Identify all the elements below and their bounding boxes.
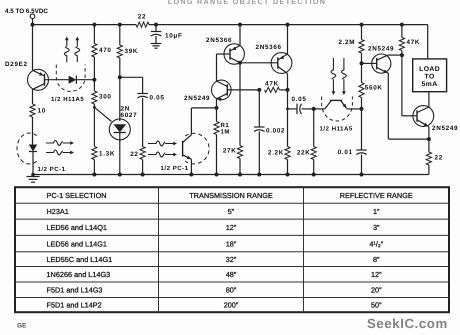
- svg-text:2N5249: 2N5249: [184, 95, 210, 102]
- table row F5D1 L14G3: [47, 285, 383, 294]
- transistor D29E2: [5, 61, 49, 90]
- wire node B to PUT anode: [119, 77, 121, 121]
- resistor 470: [92, 44, 112, 58]
- capacitor 0.05 (timing): [137, 94, 164, 147]
- svg-text:1”: 1”: [373, 207, 380, 216]
- table row 1N6266 L14G3: [47, 270, 383, 279]
- svg-text:GE: GE: [17, 323, 27, 330]
- svg-text:10μF: 10μF: [165, 33, 183, 40]
- transistor 2N5249 output: [413, 106, 458, 132]
- svg-text:80”: 80”: [226, 285, 237, 294]
- supply terminal: [30, 14, 35, 25]
- resistor 2.2K: [268, 109, 290, 160]
- resistor 1.3K: [92, 147, 115, 160]
- svg-text:560K: 560K: [365, 84, 383, 91]
- capacitor 0.01: [338, 109, 367, 175]
- svg-text:1N6266 and L14G3: 1N6266 and L14G3: [47, 270, 111, 279]
- svg-text:200”: 200”: [224, 301, 239, 310]
- wire 470 to node: [92, 57, 96, 82]
- resistor 22 (cathode): [130, 147, 145, 160]
- GE logo text: [17, 323, 27, 330]
- svg-text:0.002: 0.002: [266, 128, 285, 135]
- wire 27K to rail: [239, 159, 241, 175]
- wire node B to cap branch: [120, 77, 143, 93]
- svg-text:12”: 12”: [226, 223, 237, 232]
- wire 2N5249 emitter to node: [215, 99, 219, 110]
- svg-text:47K: 47K: [265, 81, 279, 88]
- svg-text:3”: 3”: [373, 223, 380, 232]
- svg-text:10: 10: [38, 108, 46, 115]
- wire bottom rail: [33, 173, 429, 177]
- svg-text:50”: 50”: [371, 301, 382, 310]
- wire rail corner to load: [427, 25, 429, 59]
- svg-text:39K: 39K: [125, 48, 139, 55]
- wire cap to H11A5: [314, 108, 325, 110]
- resistor 300: [92, 80, 112, 104]
- svg-text:22: 22: [138, 14, 146, 21]
- LED 1/2 H11A5 (input): [69, 76, 95, 84]
- svg-text:20”: 20”: [371, 285, 382, 294]
- svg-text:SeekIC.com: SeekIC.com: [367, 316, 448, 331]
- wire 2N5249 base: [227, 88, 261, 92]
- IR arrows up from H11A5 LED: [64, 37, 79, 63]
- resistor 39K: [117, 45, 138, 58]
- IR arrows into H11A5: [331, 58, 346, 95]
- wire 47K to collector line: [280, 88, 290, 92]
- wire collector to 47K node: [388, 53, 404, 57]
- svg-text:F5D1 and L14G3: F5D1 and L14G3: [47, 285, 103, 294]
- svg-text:2N5366: 2N5366: [206, 37, 232, 44]
- resistor 47K mid: [265, 81, 280, 93]
- svg-text:2.2K: 2.2K: [268, 150, 284, 157]
- svg-text:2.2M: 2.2M: [338, 39, 355, 46]
- resistor 22 output: [426, 152, 443, 165]
- wire load to collector: [428, 92, 430, 107]
- transistor 2N5249 first: [184, 80, 231, 102]
- LED 1/2 PC-1 (emitter): [29, 145, 37, 175]
- svg-text:1/2 PC-1: 1/2 PC-1: [38, 166, 66, 173]
- transistor 2N5366 second: [240, 44, 292, 74]
- svg-text:REFLECTIVE RANGE: REFLECTIVE RANGE: [340, 191, 413, 200]
- resistor 2.2M: [338, 39, 364, 53]
- svg-text:4¹/₂”: 4¹/₂”: [369, 239, 383, 248]
- svg-text:6027: 6027: [121, 112, 138, 119]
- table row F5D1 L14P2: [47, 301, 383, 310]
- wire 47K to base of output: [402, 51, 417, 116]
- phototransistor 1/2 PC-1: [183, 108, 192, 175]
- resistor 27K: [223, 146, 243, 159]
- capacitor 10uF: [151, 25, 183, 49]
- load box: [413, 59, 447, 92]
- wire 5366 collector down: [238, 61, 242, 146]
- wire gate node down: [93, 107, 95, 146]
- wire supply to D29E2 collector: [32, 25, 34, 71]
- svg-text:LOAD: LOAD: [419, 66, 440, 73]
- svg-text:1M: 1M: [221, 129, 230, 136]
- svg-text:32”: 32”: [226, 255, 237, 264]
- wire 22 to rail end: [428, 165, 430, 175]
- wire rail to 47K right: [401, 25, 403, 38]
- wire top rail right: [149, 23, 428, 27]
- svg-text:1.3K: 1.3K: [99, 151, 115, 158]
- wire PUT gate: [94, 107, 111, 121]
- wire 2.2K to rail: [287, 160, 289, 175]
- wire emitter down: [388, 73, 429, 139]
- table row LED56 L14G1: [47, 239, 384, 248]
- wire D29E2 emitter to 10 ohm: [32, 89, 34, 104]
- capacitor 0.002: [254, 90, 285, 175]
- wire 39K to node B: [118, 58, 122, 79]
- resistor 47K right: [399, 38, 420, 51]
- svg-text:PC-1 SELECTION: PC-1 SELECTION: [47, 191, 107, 200]
- label 1/2 PC-1 left: [38, 166, 66, 173]
- svg-text:47K: 47K: [407, 39, 421, 46]
- svg-text:1/2 H11A5: 1/2 H11A5: [320, 126, 353, 133]
- table row H23A1: [47, 207, 381, 216]
- svg-text:18”: 18”: [226, 239, 237, 248]
- wire 300 to gate node: [93, 104, 96, 109]
- wire rail to 2.2M: [361, 25, 363, 40]
- table row LED55C L14G1: [47, 255, 381, 264]
- wire emitter to 22: [427, 127, 431, 152]
- wire 22K to rail: [313, 160, 315, 175]
- svg-text:470: 470: [99, 47, 112, 54]
- supply label 4.5 TO 6.5VDC: [5, 8, 48, 15]
- wire PUT cathode to rail: [119, 140, 121, 175]
- wire 560K to node: [360, 98, 364, 111]
- wire R1 to rail: [216, 135, 218, 175]
- svg-text:0.05: 0.05: [150, 95, 165, 102]
- svg-text:0.01: 0.01: [338, 149, 353, 156]
- table grid: [15, 187, 449, 312]
- svg-text:2N5366: 2N5366: [256, 44, 282, 51]
- transistor 2N5249 third: [362, 46, 395, 74]
- IR arrows out of PC-1: [46, 141, 74, 155]
- capacitor 0.05 coupling: [288, 96, 316, 114]
- wire rail to 5366 emitter: [239, 25, 241, 46]
- SeekIC.com watermark: [367, 316, 448, 331]
- svg-text:8”: 8”: [373, 255, 380, 264]
- svg-text:LONG RANGE OBJECT DETECTION: LONG RANGE OBJECT DETECTION: [168, 0, 327, 6]
- svg-text:48”: 48”: [226, 270, 237, 279]
- resistor 22 (supply filter): [136, 14, 149, 28]
- svg-text:27K: 27K: [223, 148, 237, 155]
- svg-text:2N5249: 2N5249: [368, 46, 394, 53]
- title LONG RANGE OBJECT DETECTION (cut off at top): [168, 0, 327, 6]
- resistor 560K: [359, 63, 383, 97]
- wire 1.3K to rail: [93, 160, 95, 175]
- svg-text:300: 300: [99, 94, 112, 101]
- wire top rail left: [31, 23, 137, 27]
- label 1/2 PC-1 right: [161, 165, 189, 172]
- phototransistor 1/2 H11A5: [325, 100, 362, 109]
- resistor 22K: [297, 109, 316, 160]
- label 1/2 H11A5 left: [51, 96, 84, 103]
- svg-text:LED55C and L14G1: LED55C and L14G1: [47, 255, 113, 264]
- dashed ellipse PC-1 left: [17, 133, 37, 164]
- wire 5366b collector down: [286, 74, 289, 111]
- svg-text:4.5 TO 6.5VDC: 4.5 TO 6.5VDC: [5, 8, 48, 15]
- svg-text:TO: TO: [425, 73, 435, 80]
- wire rail to 5366b emitter: [287, 25, 289, 54]
- wire 10 ohm to PC-1 LED: [32, 117, 34, 145]
- svg-text:LED56 and L14G1: LED56 and L14G1: [47, 239, 107, 248]
- wire D29E2 base to LED: [45, 79, 69, 81]
- IR arrows into PC-1: [148, 141, 177, 157]
- resistor 10: [30, 104, 46, 117]
- wire 22 to rail: [142, 160, 144, 175]
- dashed cup H11A5 left: [56, 65, 85, 92]
- svg-text:22: 22: [435, 155, 443, 162]
- svg-text:LED56 and L14Q1: LED56 and L14Q1: [47, 223, 107, 232]
- svg-text:22K: 22K: [297, 150, 311, 157]
- svg-text:1/2 PC-1: 1/2 PC-1: [161, 165, 189, 172]
- ground main: [26, 173, 39, 183]
- dashed ellipse PC-1 right: [185, 133, 209, 164]
- wire 5366 base down: [216, 54, 218, 81]
- svg-text:0.05: 0.05: [291, 96, 306, 103]
- wire rail to 39K: [119, 25, 121, 45]
- label 1/2 H11A5 right: [320, 126, 353, 133]
- wire rail to 470: [93, 25, 95, 44]
- svg-text:2N5249: 2N5249: [432, 125, 458, 132]
- svg-text:1/2 H11A5: 1/2 H11A5: [51, 96, 84, 103]
- svg-text:12”: 12”: [371, 270, 382, 279]
- wire PC-1 collector to amp: [191, 107, 216, 109]
- table row LED56 L14Q1: [47, 223, 381, 232]
- resistor R1 1M: [214, 108, 230, 136]
- svg-text:D29E2: D29E2: [5, 61, 28, 68]
- dashed cup H11A5 right: [322, 97, 353, 122]
- wire 2.2M to base node: [360, 53, 364, 65]
- PUT 2N6027: [109, 106, 137, 140]
- svg-text:H23A1: H23A1: [47, 207, 69, 216]
- svg-text:TRANSMISSION RANGE: TRANSMISSION RANGE: [189, 191, 273, 200]
- transistor 2N5366 first: [206, 37, 244, 64]
- svg-text:F5D1 and L14P2: F5D1 and L14P2: [47, 301, 102, 310]
- table header row: [47, 191, 413, 200]
- svg-text:22: 22: [130, 151, 138, 158]
- svg-text:R1: R1: [221, 122, 230, 129]
- svg-text:5”: 5”: [228, 207, 235, 216]
- svg-text:5mA: 5mA: [422, 81, 438, 88]
